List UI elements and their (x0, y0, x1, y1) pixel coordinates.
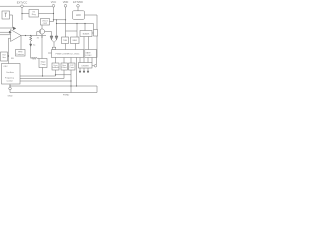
regulator U2 box (29, 10, 39, 18)
slope comp box (39, 59, 47, 68)
THB box U5 (62, 37, 69, 44)
svg-text:Isc: Isc (33, 45, 36, 47)
svg-text:MAX: MAX (73, 39, 78, 42)
svg-text:1V: 1V (37, 37, 40, 39)
error amplifier U1 (11, 30, 22, 42)
svg-text:VCC: VCC (51, 0, 57, 4)
svg-text:LDO: LDO (76, 15, 81, 17)
sub-box B (61, 63, 68, 70)
wire BST down (77, 7, 79, 11)
wire EA input 2 (0, 31, 9, 33)
wire Q1 drain (41, 25, 43, 29)
wire driver down 4 (91, 58, 93, 63)
svg-text:Oscillator: Oscillator (6, 71, 14, 74)
wire LEB down 2 (88, 37, 90, 50)
wire EA input 3 (0, 34, 11, 36)
wire clk B (20, 78, 64, 80)
svg-text:Timer: Timer (69, 67, 74, 69)
sub-box A (52, 63, 59, 70)
node gnd return dot (76, 85, 77, 86)
LEB box U7 (80, 31, 92, 37)
wire LEB down 1 (83, 37, 85, 50)
transistor Q1 (39, 29, 44, 34)
wire to R2 (30, 47, 32, 59)
wire THB-MAX bus (66, 30, 78, 32)
svg-text:THB: THB (63, 40, 68, 42)
svg-text:FB: FB (11, 58, 14, 60)
wire EA output (21, 35, 46, 37)
wire sub-box C down (70, 70, 72, 93)
diode D3 (55, 36, 58, 40)
PFM detector box (16, 50, 26, 57)
comparator box U8 (94, 30, 98, 37)
LDO box U4 (73, 11, 85, 19)
svg-text:OVP: OVP (43, 23, 48, 25)
wire below R1 (30, 42, 32, 45)
svg-text:PGND: PGND (63, 95, 70, 97)
wire Q1 to comparator (45, 32, 52, 37)
svg-text:VDD: VDD (63, 0, 69, 4)
wire UVLO to VCC (50, 21, 54, 23)
wire LEB to N (92, 32, 94, 34)
wire EA output down to PFM (20, 36, 22, 50)
node clkA dot (42, 75, 43, 76)
svg-text:EXTVCC: EXTVCC (17, 0, 28, 4)
PWM CONTROL LOGIC box (52, 50, 84, 58)
wire bottom rail 1 (10, 85, 97, 87)
svg-text:GND: GND (8, 95, 13, 97)
svg-text:PWM CONTROL LOGIC: PWM CONTROL LOGIC (56, 53, 80, 55)
svg-text:Control: Control (6, 80, 13, 83)
wire rail2 (57, 23, 94, 25)
pin SW (94, 65, 97, 68)
wire THB feed (65, 20, 67, 37)
wire slope comp down (42, 68, 44, 77)
wire regulator output (39, 13, 54, 15)
node dots (53, 13, 54, 14)
wire comparator feed (93, 24, 95, 30)
node gnd dot (9, 85, 10, 86)
pin EXTVCC (21, 5, 24, 8)
svg-text:Detect: Detect (62, 66, 68, 69)
resistor R2 (31, 57, 39, 59)
svg-text:Frequency: Frequency (5, 77, 14, 80)
arrow out 1 (79, 71, 81, 73)
wire pwm down B (63, 58, 65, 64)
wire out stub 1 (79, 68, 81, 71)
wire LEB feed (84, 24, 86, 31)
diode D2 (50, 36, 53, 40)
pin BST (77, 5, 80, 8)
wire pwm down A (55, 58, 57, 64)
diode D1 (13, 27, 16, 30)
wire rail1 (54, 19, 66, 21)
svg-text:Detector: Detector (16, 53, 24, 56)
wire clk A (20, 75, 56, 77)
wire right border down (96, 36, 98, 58)
wire diode join (52, 40, 57, 43)
wire EA input 1 (0, 27, 13, 29)
wire VCC down (53, 7, 55, 21)
wire to PWM comparator (53, 42, 55, 47)
PWM comparator U10 (52, 47, 55, 49)
wire below GND pin (9, 90, 11, 93)
svg-text:BLANK: BLANK (83, 32, 90, 35)
wire osc down (9, 84, 11, 87)
wire driver down 1 (79, 58, 81, 63)
wire pwm gnd return (76, 58, 78, 87)
current source box B1 (2, 11, 10, 19)
wire Q1 source down (41, 34, 43, 58)
wire top rail VIN (0, 5, 21, 7)
node FB dot (8, 55, 9, 56)
svg-text:Gen: Gen (2, 57, 6, 59)
svg-text:OSC: OSC (3, 66, 8, 68)
symbol inside B1 (5, 13, 8, 17)
wire driver to pin (96, 58, 98, 65)
arrow out 3 (87, 71, 89, 73)
arrow EA input 2 (9, 31, 11, 33)
output stage box (79, 63, 93, 69)
wire out stub 2 (83, 68, 85, 71)
svg-text:EXTVDD: EXTVDD (73, 1, 83, 4)
wire bottom rail 2 (10, 92, 97, 94)
UVLO box U3 (41, 19, 50, 26)
current sense arrow (30, 44, 32, 47)
wire rail1 to diode (56, 20, 58, 36)
resistor R1 (30, 36, 32, 42)
wire EXTVCC down (21, 8, 23, 21)
svg-text:Foldback: Foldback (52, 67, 59, 69)
node R top dot (30, 35, 31, 36)
pin VDD (64, 5, 67, 8)
oscillator box (2, 64, 21, 85)
OSC small box L1 (1, 52, 8, 61)
wire driver down 2 (83, 58, 85, 63)
MAXDUTY box U6 (71, 37, 80, 44)
DRIVER box U9 (85, 50, 97, 58)
wire THB down (65, 44, 67, 50)
svg-text:LOGIC: LOGIC (85, 55, 92, 57)
wire out stub 3 (87, 68, 89, 71)
pin GND (9, 87, 12, 90)
wire Q1 gate (37, 32, 40, 36)
wire MAX feed (76, 24, 78, 38)
wire L1 to node (8, 55, 9, 57)
wire sub-box A up (55, 70, 57, 76)
wire PWM left stub (48, 52, 52, 54)
wire soft-start path (10, 15, 13, 28)
wire to SW pin (92, 65, 94, 67)
node EAOUT dot (25, 35, 26, 36)
wire pwm down C (70, 58, 72, 64)
wire bottom right stub (96, 86, 98, 93)
wire rail clk mid (56, 74, 72, 76)
wire LDO output (85, 15, 98, 30)
wire EXTVCC to regulator (22, 13, 29, 15)
wire VDD down (65, 7, 67, 20)
wire clk C (20, 80, 71, 82)
wire EA input 4 (9, 38, 11, 63)
wire sub-box B up (63, 70, 65, 79)
svg-text:DRIVER: DRIVER (82, 65, 90, 67)
pin VCC (52, 5, 55, 8)
wire MAXDUTY down (75, 44, 77, 50)
Q1 gate bar (40, 30, 42, 33)
wire driver down 3 (87, 58, 89, 63)
svg-text:Comp: Comp (40, 64, 45, 66)
arrow out 2 (83, 71, 85, 73)
sub-box C (69, 63, 76, 70)
